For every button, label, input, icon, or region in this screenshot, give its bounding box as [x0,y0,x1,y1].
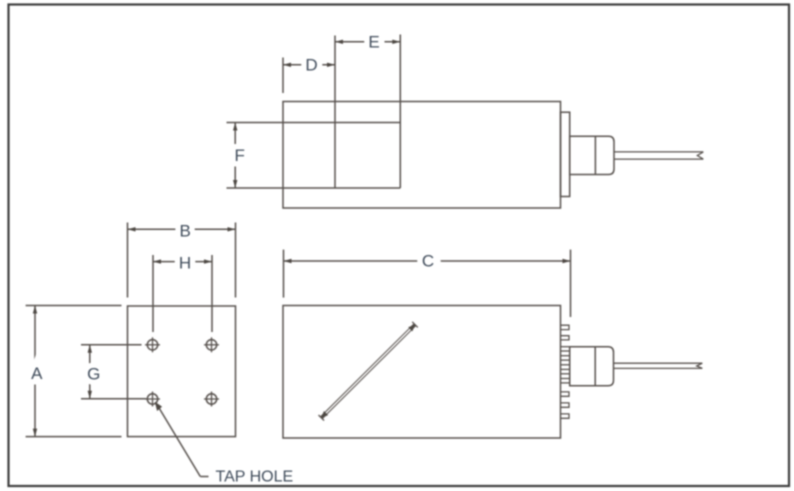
svg-text:B: B [180,221,191,240]
dimension B [128,221,236,297]
svg-text:E: E [368,33,379,52]
dimension F [233,123,245,189]
thread tab 4 [560,403,569,407]
thread tab 5 [560,414,569,418]
thread tab 1 [560,325,569,329]
top view cable [614,152,703,159]
svg-text:D: D [305,56,317,75]
dimension D [283,56,335,94]
thread ribs [560,347,570,383]
thread tab 2 [560,336,569,340]
svg-text:F: F [235,146,245,165]
side view body [283,306,561,439]
top view connector [570,136,614,174]
top view flange [561,112,570,196]
plate view body [128,306,236,437]
tap hole top-right [204,337,219,352]
svg-text:C: C [422,252,434,271]
tap hole bottom-right [204,392,219,407]
dimension E [335,33,400,52]
svg-text:H: H [179,253,191,272]
top view pocket [227,35,401,189]
svg-text:G: G [87,365,100,384]
thread tab 3 [560,392,569,396]
dimension A [26,306,122,437]
tap hole bottom-left [145,392,160,407]
svg-text:A: A [31,364,43,383]
side view cable [614,363,703,368]
side view connector [570,347,614,386]
dimension C [284,250,571,317]
dimension G [81,345,146,399]
top view body [283,102,561,209]
svg-text:TAP HOLE: TAP HOLE [216,469,294,486]
tap hole top-left [145,337,160,352]
tap hole leader [155,402,209,477]
dimension H [153,253,212,332]
load axis arrow [319,322,418,421]
label TAP HOLE [216,469,294,486]
